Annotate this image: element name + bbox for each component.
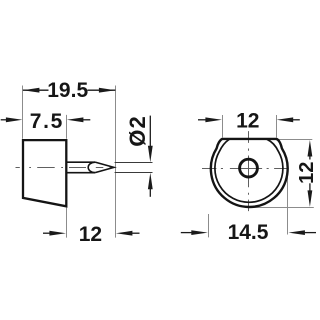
dimension tail top-12 right xyxy=(292,119,300,121)
pin top line xyxy=(66,161,95,163)
extension line left (x=22.9) xyxy=(23,86,153,238)
dimension tail top-12 left xyxy=(198,119,206,121)
dimension tail 7.5 right xyxy=(82,119,90,121)
pin cone tip xyxy=(95,162,114,173)
extension line right-12 lower xyxy=(247,207,314,209)
svg-text:19.5: 19.5 xyxy=(47,79,88,102)
arrowhead top-12 left xyxy=(205,117,222,122)
dimension 12 pin length xyxy=(43,231,140,236)
center hole xyxy=(240,159,258,177)
arrowhead Ø2 up xyxy=(148,173,153,190)
dimension 12 height (right, vertical) xyxy=(308,140,313,207)
pin bottom line xyxy=(66,172,95,174)
svg-text:12: 12 xyxy=(296,162,318,184)
dimension tail right-12 lower xyxy=(309,183,311,190)
dimension 19.5 overall length xyxy=(23,88,116,93)
arrowhead 14.5 left xyxy=(191,230,208,235)
dimension tail 14.5 left xyxy=(181,232,194,234)
extension line body right upper xyxy=(66,115,68,139)
svg-text:14.5: 14.5 xyxy=(228,221,269,244)
extension line right-12 upper xyxy=(277,139,313,141)
dimension tail Ø2 lower xyxy=(149,187,151,197)
svg-text:12: 12 xyxy=(79,223,102,246)
dimension tail 7.5 left xyxy=(1,119,7,121)
dimension line 19.5 left segment xyxy=(23,89,49,91)
inner circle (body Ø12) xyxy=(215,139,283,202)
extension line 14.5 left xyxy=(208,214,210,237)
dimension line 19.5 right segment xyxy=(88,89,116,91)
arrowhead top-12 right xyxy=(277,117,294,122)
outer contour (flange with flat top) xyxy=(211,139,288,207)
arrowhead 14.5 right xyxy=(288,230,305,235)
pin cone base arc xyxy=(88,162,95,173)
dimension tail 12 left xyxy=(43,232,50,234)
extension line top-12 right xyxy=(276,115,278,138)
extension line pin tip (x=115.4) xyxy=(115,86,117,238)
dimension 14.5 flange diameter xyxy=(181,230,316,235)
centerline left view xyxy=(16,167,112,169)
arrowhead right-12 up xyxy=(308,140,313,157)
Ø2 extension line upper xyxy=(115,162,153,164)
extension line top-12 left xyxy=(209,115,314,237)
arrowhead 12 right xyxy=(116,231,132,236)
arrowhead Ø2 down xyxy=(148,146,153,163)
arrowhead right-12 down xyxy=(308,190,313,207)
centerline horizontal top view xyxy=(202,168,287,170)
dimension tail 12 right xyxy=(131,232,139,234)
svg-text:12: 12 xyxy=(236,110,259,133)
dimension 7.5 body width xyxy=(1,117,91,122)
arrowhead 19.5 left xyxy=(23,88,40,93)
dimension Ø2 pin diameter xyxy=(148,116,153,197)
svg-text:Ø2: Ø2 xyxy=(125,115,150,147)
arrowhead 7.5 right xyxy=(67,117,84,122)
dimension 12 flat width (top) xyxy=(198,117,300,122)
dimension tail 14.5 right xyxy=(304,232,316,234)
body (side view trapezoid) xyxy=(23,140,66,206)
arrowhead 7.5 left xyxy=(6,117,23,122)
centerline vertical top view xyxy=(248,131,250,211)
extension line 14.5 right xyxy=(287,174,289,235)
Ø2 extension line lower xyxy=(115,172,153,174)
arrowhead 19.5 right xyxy=(99,88,116,93)
arrowhead 12 left xyxy=(49,231,66,236)
svg-text:7.5: 7.5 xyxy=(30,110,64,133)
dimension tail right-12 upper xyxy=(309,156,311,160)
extension line body right lower xyxy=(66,208,68,238)
dimension tail Ø2 upper xyxy=(149,116,151,148)
